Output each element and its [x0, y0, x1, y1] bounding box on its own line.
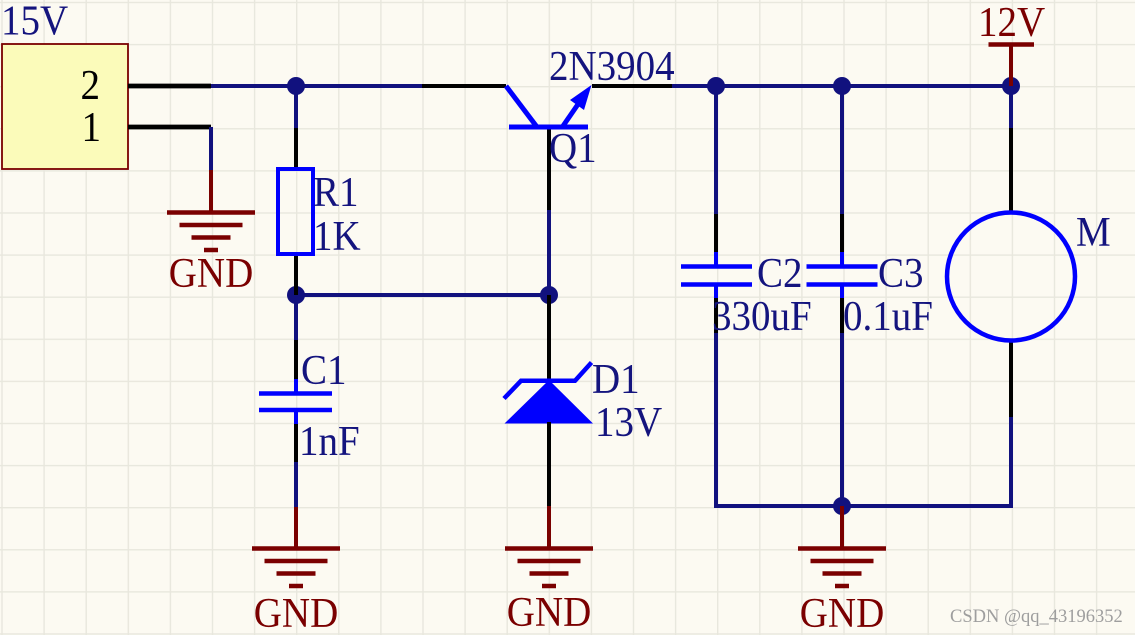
pin 2 of P1 [128, 84, 211, 89]
wire pin1 to GND [209, 127, 213, 171]
wire node to C2 top [714, 86, 718, 215]
svg-text:M: M [1076, 208, 1111, 255]
svg-text:Q1: Q1 [549, 124, 597, 171]
svg-text:GND: GND [507, 588, 591, 635]
label GND [169, 249, 253, 296]
wire C1 bottom to GND [294, 462, 298, 508]
wire node to C3 top [840, 86, 844, 215]
ground at P1 pin 1 [167, 170, 255, 250]
svg-text:2: 2 [81, 61, 100, 108]
designator C3 [878, 249, 924, 296]
wire node B down to C1 [294, 295, 298, 341]
svg-text:13V: 13V [595, 398, 662, 445]
wire C3 bottom to rail [840, 333, 844, 507]
value 1K [313, 212, 361, 259]
svg-text:GND: GND [800, 589, 884, 635]
svg-text:0.1uF: 0.1uF [843, 292, 933, 339]
designator C1 [301, 346, 347, 393]
capacitor C1 [259, 340, 332, 462]
designator C2 [757, 249, 803, 296]
junction node B right [540, 286, 558, 304]
designator Q1 [549, 124, 597, 171]
designator R1 [313, 168, 359, 215]
junction C3 top [833, 77, 851, 95]
svg-text:330uF: 330uF [712, 292, 812, 339]
svg-text:2N3904: 2N3904 [549, 42, 675, 89]
junction 12V node [1002, 77, 1020, 95]
svg-text:15V: 15V [1, 0, 68, 44]
ground below C2 C3 [798, 506, 886, 586]
label GND [507, 588, 591, 635]
pin number 2 [81, 61, 100, 108]
transistor Q1 [422, 85, 672, 210]
wire node A down to R1 [294, 86, 298, 130]
pin 1 of P1 [128, 125, 211, 130]
zener diode D1 [504, 295, 593, 506]
wire C2 bottom to rail [714, 333, 718, 508]
resistor R1 [278, 128, 313, 295]
value 0.1uF [843, 292, 933, 339]
value 13V [595, 398, 662, 445]
junction C2 top [707, 77, 725, 95]
wire Q1 base to node B [547, 210, 551, 295]
svg-text:C1: C1 [301, 346, 347, 393]
svg-text:12V: 12V [978, 0, 1045, 45]
wire pin2 to Q1 collector [211, 84, 422, 88]
capacitor C3 [807, 214, 878, 333]
label GND [800, 589, 884, 635]
power port 12V [989, 45, 1035, 87]
svg-text:CSDN @qq_43196352: CSDN @qq_43196352 [950, 607, 1123, 627]
watermark [950, 607, 1123, 627]
svg-text:1: 1 [82, 103, 101, 150]
designator 15V [1, 0, 68, 44]
designator D1 [592, 355, 640, 402]
svg-text:1nF: 1nF [299, 417, 360, 464]
designator M [1076, 208, 1111, 255]
svg-text:GND: GND [254, 589, 338, 635]
connector P1 body [2, 44, 128, 169]
pin number 1 [82, 103, 101, 150]
svg-text:R1: R1 [313, 168, 359, 215]
wire Q1 emitter to 12V node [672, 84, 1011, 88]
ground below C1 [252, 507, 340, 586]
value 1nF [299, 417, 360, 464]
svg-text:C3: C3 [878, 249, 924, 296]
value 2N3904 [549, 42, 675, 89]
label GND [254, 589, 338, 635]
junction node B left [287, 286, 305, 304]
svg-text:GND: GND [169, 249, 253, 296]
ground below D1 [505, 506, 593, 586]
junction at node A [287, 77, 305, 95]
svg-text:1K: 1K [313, 212, 361, 259]
label 12V [978, 0, 1045, 45]
svg-text:C2: C2 [757, 249, 803, 296]
wire bottom rail [714, 504, 1013, 508]
wire 12V node to motor [1009, 86, 1013, 130]
svg-text:D1: D1 [592, 355, 640, 402]
wire motor bottom to rail [1009, 417, 1013, 508]
value 330uF [712, 292, 812, 339]
junction bottom rail [833, 497, 851, 515]
motor M [947, 128, 1075, 417]
wire R1 bottom to Q1 base node [296, 293, 549, 297]
capacitor C2 [681, 214, 752, 333]
